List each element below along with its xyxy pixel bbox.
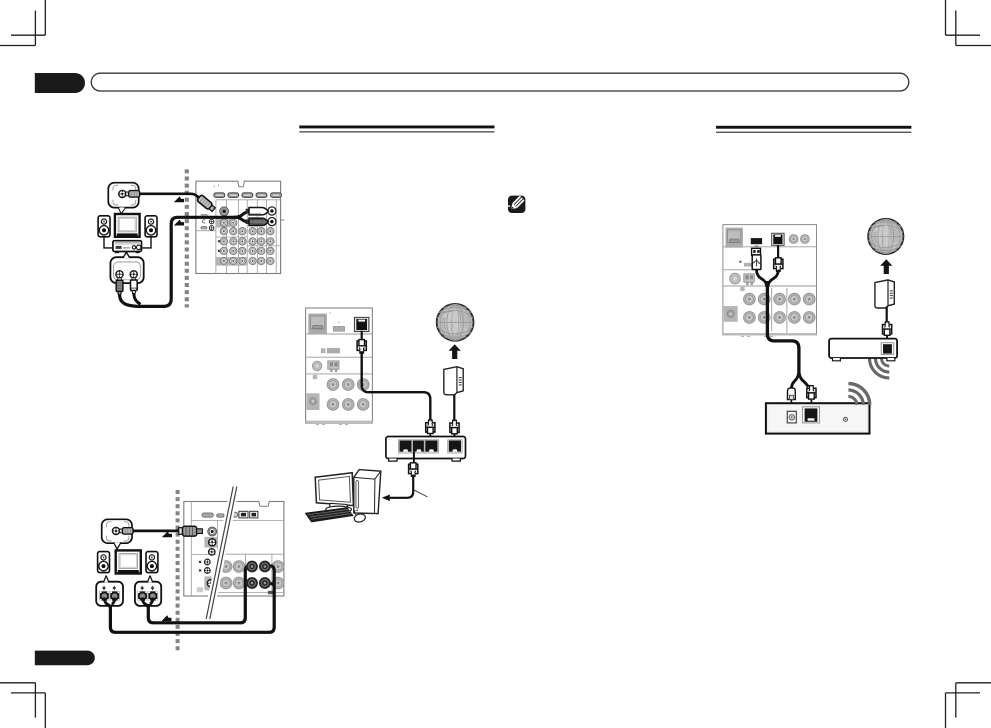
- wireless router (right): [829, 339, 897, 361]
- antenna cable to panel: [140, 194, 200, 199]
- speaker knobs (right panel): [744, 293, 756, 305]
- left column: antenna jack: [208, 527, 217, 536]
- jack grid: [220, 219, 274, 265]
- TV set: [115, 214, 140, 237]
- dark terminal knob A1: [246, 561, 258, 573]
- dark RCA plug into panel: [246, 218, 269, 225]
- crop mark bottom-right: [946, 683, 991, 728]
- USB plug at receiver: [744, 248, 761, 269]
- USB + LAN cables merging: [757, 270, 767, 288]
- fork to dark plug: [234, 217, 248, 221]
- note icon (pencil): [508, 195, 526, 213]
- FM antenna jack: [220, 207, 229, 216]
- modem cable: [453, 395, 455, 422]
- phono + speaker terminal block: [312, 361, 321, 370]
- modem plug into router WAN: [450, 420, 459, 434]
- antenna jack in bubble: [119, 190, 126, 197]
- receiver rear panel (middle): [306, 308, 373, 425]
- ethernet plug at receiver (right): [774, 258, 783, 272]
- diagonal break lines: [206, 487, 237, 620]
- TV set (lower): [116, 550, 141, 573]
- dashed separator line: [176, 490, 180, 652]
- wireless converter box: [766, 403, 870, 433]
- ethernet plug under router: [409, 463, 418, 477]
- computer monitor: [315, 473, 353, 513]
- SCART grey block: [308, 314, 327, 334]
- audio jack R in bubble: [130, 271, 137, 278]
- speaker cable from left bubble to panel: [104, 566, 274, 632]
- F-connector plug into panel: [197, 195, 216, 213]
- white RCA plug hanging: [131, 278, 138, 294]
- binding post right-1: [138, 591, 147, 600]
- middle heading underline: [299, 126, 494, 133]
- arrow head 1: [174, 196, 184, 202]
- speech bubble: TV antenna (lower): [102, 519, 132, 549]
- arrow head 3: [162, 531, 172, 537]
- LAN port (middle panel): [355, 318, 369, 332]
- ethernet plug to converter: [807, 386, 816, 400]
- header white rounded bar: [91, 73, 909, 91]
- internet globe (middle): [437, 304, 474, 341]
- white RCA plug into panel: [246, 208, 269, 215]
- mid grey rects: [327, 348, 340, 354]
- binding post left-1: [100, 591, 109, 600]
- knobs top right: [789, 234, 798, 243]
- audio cable loop to panel: [120, 217, 234, 306]
- ethernet plug into router LAN3: [426, 420, 435, 434]
- left lower grey block: [307, 393, 320, 410]
- speaker cable from right bubble to panel: [143, 566, 252, 623]
- left column glyphs: [201, 214, 214, 230]
- binding post left-2: [110, 591, 119, 600]
- grey highlight blocks: [216, 218, 231, 228]
- terminal bubble right: [135, 576, 161, 606]
- speaker wires to player: [104, 237, 151, 248]
- bottom band (right panel): [723, 333, 817, 335]
- audio in jack (dark plug target): [268, 218, 276, 226]
- panel grid lines: [196, 200, 281, 274]
- header black tab: [35, 73, 85, 93]
- audio jack L in bubble: [116, 271, 123, 278]
- pointer line: [414, 490, 428, 497]
- HDMI ports row: [214, 193, 225, 198]
- USB port: [751, 238, 762, 244]
- cable LAN port to plug: [361, 331, 363, 340]
- wifi waves near converter: [848, 384, 869, 405]
- speech bubble: TV antenna output: [108, 183, 138, 214]
- modem plug (right): [883, 322, 892, 336]
- crop mark top-left: [0, 0, 45, 46]
- arrow head 2: [174, 220, 184, 226]
- F-connector plug into lower panel: [179, 526, 203, 536]
- speaker terminal knobs: [220, 561, 232, 573]
- bottom band: [306, 421, 373, 423]
- SCART grey block (right panel): [726, 228, 743, 248]
- ethernet plug at receiver LAN: [357, 340, 366, 354]
- LAN port (right panel): [772, 233, 784, 245]
- antenna cable to panel: [133, 530, 179, 533]
- left speaker: [98, 216, 110, 237]
- bottom-left black tab: [35, 651, 95, 666]
- merged cable to converter: [767, 281, 799, 372]
- computer tower: [354, 470, 381, 514]
- antenna plug in bubble: [119, 528, 133, 534]
- video in jack (white plug target): [268, 207, 276, 215]
- panel edge tick: [281, 219, 285, 221]
- mouse: [353, 510, 366, 523]
- up arrow to internet (right): [880, 259, 892, 274]
- player unit: [113, 241, 142, 254]
- speech bubble: audio output jacks: [110, 252, 143, 283]
- dark terminal knob B2: [259, 577, 271, 589]
- internet globe (right): [868, 219, 903, 254]
- crop mark top-right: [946, 0, 991, 46]
- arrow to computer: [382, 495, 390, 502]
- modem cable (right): [886, 307, 888, 323]
- dashed separator line: [185, 169, 189, 307]
- receiver rear panel (bottom-left): [184, 501, 284, 596]
- keyboard: [305, 508, 353, 522]
- top row connectors: [202, 513, 214, 517]
- cable router to computer: [413, 452, 415, 463]
- antenna plug: [126, 191, 140, 198]
- crop mark bottom-left: [0, 683, 45, 728]
- fork to white plug: [234, 212, 248, 218]
- right speaker: [145, 216, 157, 237]
- right heading underline: [716, 126, 911, 133]
- left lower grey block (right panel): [724, 306, 738, 322]
- right speaker (lower): [146, 552, 158, 573]
- up arrow to internet: [449, 344, 461, 359]
- left speaker (lower): [98, 552, 110, 573]
- modem (right): [875, 280, 894, 308]
- router (middle): [386, 437, 466, 462]
- receiver rear panel (right): [723, 225, 817, 337]
- mini-USB plug to converter: [788, 388, 796, 400]
- terminal bubble left: [96, 576, 123, 606]
- arrow head 4: [161, 615, 171, 621]
- wifi waves near router: [869, 358, 889, 378]
- binding post right-2: [148, 591, 157, 600]
- modem (middle): [444, 367, 463, 395]
- stub cables at lower dark terminals: [247, 582, 256, 585]
- receiver rear panel (top-left): [196, 181, 285, 274]
- antenna jack in bubble: [112, 527, 119, 534]
- dark terminal knob A2: [259, 561, 271, 573]
- grey RCA plug hanging: [116, 278, 123, 295]
- speaker knobs (middle panel): [327, 379, 339, 391]
- phono + terminal block (right panel): [730, 273, 741, 284]
- section 2: grey bits: [739, 261, 741, 263]
- dark terminal knob B1: [246, 577, 258, 589]
- ethernet cable to router: [362, 351, 431, 421]
